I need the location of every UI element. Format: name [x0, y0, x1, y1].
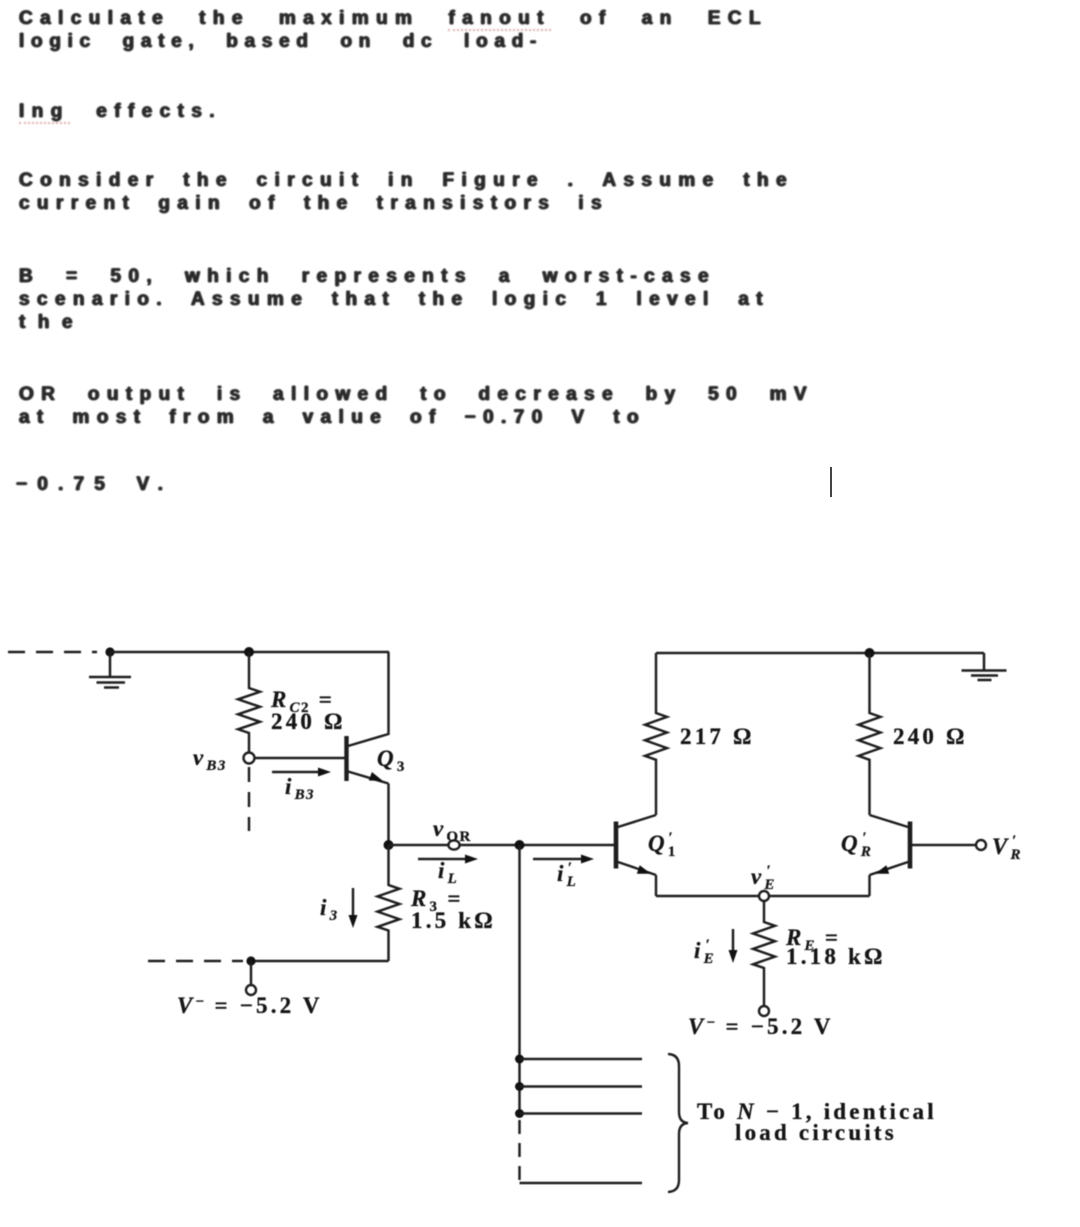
transistor Q1' — [616, 815, 656, 896]
label RE value — [785, 925, 886, 969]
svg-text:iE′: iE′ — [694, 937, 715, 967]
svg-text:240 Ω: 240 Ω — [271, 709, 346, 734]
node: junction to load circuits — [515, 840, 525, 850]
node: junction at top of 240 ohm — [865, 648, 875, 658]
node: RE bottom terminal (open circle) — [759, 1006, 769, 1016]
problem text line 11 — [16, 473, 173, 496]
wire: dashed below vB3 — [248, 767, 250, 831]
svg-text:V− = −5.2 V: V− = −5.2 V — [177, 993, 323, 1018]
arrow iE' (down) — [729, 929, 738, 963]
wire: dashed bottom-left — [148, 960, 243, 962]
wire: load line 3 — [520, 1112, 643, 1114]
svg-text:VR′: VR′ — [992, 833, 1022, 863]
wire: bottom left rail — [251, 960, 389, 962]
node VR' terminal (open circle) — [976, 840, 986, 850]
problem text line 6 — [19, 265, 716, 288]
node: junction at top of RC2 — [244, 647, 254, 657]
problem text line 9 — [19, 383, 814, 406]
wire: load line 1 — [520, 1058, 643, 1060]
node: load tap 2 — [515, 1082, 524, 1091]
ground (left, at top rail) — [89, 647, 131, 687]
wire: QR' base to VR' — [910, 844, 976, 846]
node: load tap 3 — [515, 1109, 524, 1118]
label R3 value — [410, 886, 496, 933]
wire: top rail left section — [110, 651, 389, 653]
wire: load line 2 — [520, 1085, 643, 1087]
svg-text:1.5 kΩ: 1.5 kΩ — [411, 908, 496, 933]
arrow iB3 — [272, 768, 331, 777]
svg-text:Q1′: Q1′ — [648, 830, 677, 860]
svg-text:vE′: vE′ — [751, 863, 776, 893]
transistor Q3 — [347, 652, 389, 845]
svg-text:vB3: vB3 — [193, 745, 227, 774]
arrow iL' — [533, 855, 594, 864]
node: junction at V- tap — [246, 956, 255, 965]
wire: load-circuit vertical — [518, 845, 520, 1114]
resistor 240 ohm (right) — [859, 653, 881, 815]
svg-text:load circuits: load circuits — [735, 1120, 897, 1145]
problem text line 1 — [19, 7, 768, 30]
node: V- terminal (open circle) — [246, 961, 256, 995]
svg-text:V− = −5.2 V: V− = −5.2 V — [688, 1014, 834, 1039]
node vE' (open circle) — [759, 891, 769, 901]
problem text line 5 — [19, 192, 609, 215]
label RC2 value — [270, 687, 346, 734]
wire: emitter node to Q1' base — [389, 844, 615, 846]
arrow iL — [418, 855, 478, 864]
wire: vB3 to Q3 base — [255, 757, 345, 759]
resistor R3 1.5 kohm — [378, 845, 400, 961]
wire: dashed load vertical — [518, 1120, 520, 1183]
problem text line 3 — [19, 100, 222, 123]
node: junction at Q3 emitter / R3 — [384, 840, 394, 850]
problem text line 10 — [19, 406, 646, 429]
node: load tap 1 — [515, 1055, 524, 1064]
arrow i3 (down) — [349, 888, 358, 928]
wire: dashed stub top-left — [8, 651, 97, 653]
resistor RE 1.18 kohm — [753, 901, 775, 1006]
resistor 217 ohm — [645, 653, 667, 815]
problem text line 4 — [19, 169, 794, 192]
transistor QR' — [870, 815, 911, 896]
text cursor — [830, 467, 832, 497]
node vOR (open circle) — [448, 840, 459, 849]
svg-text:i3: i3 — [320, 895, 339, 924]
wire: top rail right section — [656, 652, 984, 654]
problem text line 7 — [19, 288, 770, 311]
svg-text:240 Ω: 240 Ω — [893, 724, 968, 749]
svg-text:Q3: Q3 — [377, 746, 406, 775]
wire: emitter rail — [656, 895, 870, 897]
svg-text:1.18 kΩ: 1.18 kΩ — [786, 944, 886, 969]
svg-text:iL′: iL′ — [557, 860, 577, 890]
svg-text:QR′: QR′ — [841, 830, 872, 860]
ground (right, at top rail) — [962, 653, 1007, 680]
label: To N-1, identical load circuits — [697, 1099, 937, 1145]
svg-text:vOR: vOR — [433, 816, 472, 845]
resistor RC2 240 ohm — [238, 652, 260, 752]
svg-text:iB3: iB3 — [285, 774, 315, 803]
node vB3 (open circle) — [244, 753, 255, 764]
problem text line 2 — [19, 30, 543, 53]
problem text line 8 — [19, 311, 85, 334]
svg-text:217 Ω: 217 Ω — [680, 724, 755, 749]
svg-text:iL: iL — [438, 858, 458, 887]
wire: load line bottom — [520, 1182, 643, 1184]
brace — [668, 1054, 688, 1192]
